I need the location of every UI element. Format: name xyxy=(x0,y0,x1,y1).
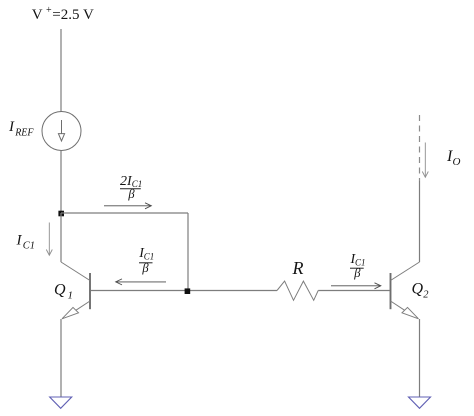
svg-text:Q: Q xyxy=(412,281,424,298)
svg-text:β: β xyxy=(141,261,149,275)
node B junction xyxy=(185,288,191,294)
power net label V+=2.5 V xyxy=(32,5,94,23)
wire resistor to Q2 xyxy=(318,290,389,292)
wire Q2 collector up (solid) xyxy=(419,181,421,262)
arrow IC1 down xyxy=(46,223,52,256)
arrow IC1/beta left xyxy=(116,279,166,285)
wire Q1 emitter to ground xyxy=(60,319,62,397)
label IO xyxy=(446,148,461,168)
svg-text:C1: C1 xyxy=(144,251,155,261)
svg-text:REF: REF xyxy=(14,128,34,139)
svg-text:C1: C1 xyxy=(23,241,35,252)
wire corner down to node B xyxy=(187,213,189,291)
svg-text:β: β xyxy=(127,187,135,201)
wire current source to node A xyxy=(60,151,62,214)
svg-text:2: 2 xyxy=(423,290,429,301)
ground right xyxy=(409,397,431,408)
ground left xyxy=(50,397,72,408)
node A junction xyxy=(58,211,64,217)
label IC1 xyxy=(16,233,36,252)
svg-text:O: O xyxy=(453,156,461,168)
resistor R xyxy=(277,281,318,300)
svg-text:=2.5 V: =2.5 V xyxy=(52,7,94,23)
label IC1/beta left fraction xyxy=(138,246,154,275)
svg-text:β: β xyxy=(353,266,361,280)
svg-text:Q: Q xyxy=(54,282,66,299)
wire node A right xyxy=(61,212,188,214)
arrow IC1/beta right xyxy=(331,283,381,289)
svg-text:I: I xyxy=(8,119,15,135)
wire Q2 emitter to ground xyxy=(419,319,421,397)
wire V+ to current source xyxy=(60,29,62,112)
arrow 2IC1/beta right xyxy=(104,203,151,209)
label Q2 xyxy=(412,281,430,301)
dashed wire above Q2 collector xyxy=(419,115,421,181)
label IREF xyxy=(8,119,34,139)
arrow IO down xyxy=(422,143,428,178)
svg-text:V: V xyxy=(32,7,43,23)
svg-text:1: 1 xyxy=(68,290,74,302)
svg-text:R: R xyxy=(292,258,304,278)
label IC1/beta right fraction xyxy=(350,252,366,280)
svg-text:+: + xyxy=(46,5,52,16)
svg-text:I: I xyxy=(16,233,23,249)
label Q1 xyxy=(54,282,73,302)
label 2IC1/beta fraction xyxy=(120,174,142,201)
base wire Q1 to node B to resistor xyxy=(91,290,277,292)
wire node A down to Q1 collector xyxy=(60,213,62,262)
transistor Q1 xyxy=(61,262,90,319)
current source IREF xyxy=(42,112,81,151)
transistor Q2 xyxy=(391,262,420,319)
